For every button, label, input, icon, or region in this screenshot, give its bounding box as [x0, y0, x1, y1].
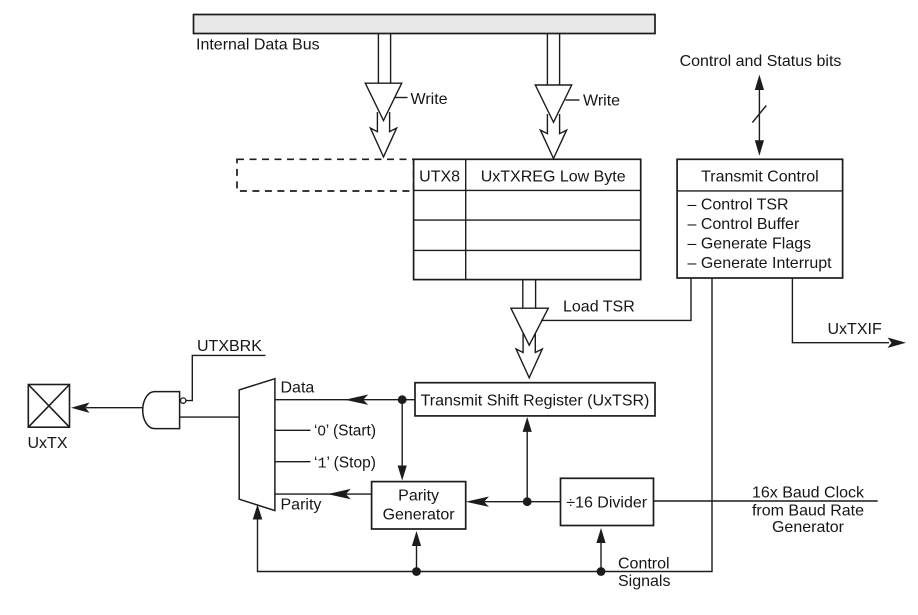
bus width slash	[752, 106, 766, 123]
wire: data from TSR to mux	[275, 399, 415, 401]
svg-text:Control and Status bits: Control and Status bits	[680, 53, 842, 70]
wire: gate to pad	[86, 407, 143, 409]
arrowhead into parity generator right edge	[466, 497, 489, 507]
svg-text:Data: Data	[281, 380, 315, 397]
arrowhead: UxTXIF	[888, 338, 907, 348]
junction on data wire	[398, 395, 407, 404]
arrowhead into pad	[71, 403, 90, 413]
transmit shift register box	[415, 383, 655, 416]
svg-text:Control: Control	[618, 556, 670, 573]
wire: UxTXIF	[792, 278, 889, 343]
svg-text:UxTXIF: UxTXIF	[828, 321, 882, 338]
internal data bus	[194, 15, 656, 34]
svg-text:Transmit Control: Transmit Control	[701, 169, 819, 186]
svg-text:‘0’ (Start): ‘0’ (Start)	[314, 422, 376, 439]
load TSR chevron head	[516, 333, 542, 378]
svg-text:– Generate Interrupt: – Generate Interrupt	[688, 255, 833, 272]
arrowhead on data wire	[345, 395, 368, 405]
wire: junction up to TSR	[526, 430, 528, 502]
svg-text:from Baud Rate: from Baud Rate	[752, 503, 864, 520]
arrowhead into TSR bottom	[523, 417, 532, 432]
wire: parity from parity generator to mux	[275, 493, 372, 495]
junction below parity generator	[412, 567, 421, 576]
junction below divider	[597, 567, 606, 576]
label line: Write (right)	[566, 99, 580, 101]
svg-text:Generator: Generator	[772, 519, 845, 536]
write arrow 2 hollow triangle	[535, 85, 571, 122]
svg-text:16x Baud Clock: 16x Baud Clock	[752, 485, 865, 502]
wire: data junction down to parity generator	[401, 400, 403, 467]
UxTXREG register box	[414, 159, 641, 279]
junction on divider-parity wire	[523, 497, 532, 506]
write arrow 2 chevron head	[540, 114, 566, 159]
svg-text:UTX8: UTX8	[419, 169, 460, 186]
wire: 16x baud clock	[654, 500, 878, 502]
wire: divider to parity generator	[484, 501, 561, 503]
svg-text:UxTX: UxTX	[28, 435, 68, 452]
arrowhead on parity wire	[328, 489, 351, 499]
write arrow 1 (left, shaft)	[378, 34, 390, 84]
mux trapezoid	[239, 379, 275, 511]
wire: up into divider bottom	[600, 541, 602, 572]
wire: up into parity generator bottom	[416, 544, 418, 572]
output gate (D-shape pointing left)	[143, 392, 180, 429]
svg-text:UTXBRK: UTXBRK	[197, 338, 262, 355]
svg-text:– Control TSR: – Control TSR	[688, 197, 789, 214]
divider box	[561, 478, 654, 525]
wire: mux output to gate	[180, 416, 240, 418]
svg-text:Parity: Parity	[281, 497, 322, 514]
svg-text:Signals: Signals	[618, 573, 670, 590]
load TSR arrow (shaft)	[523, 280, 536, 309]
wire: load TSR control from transmit control	[541, 278, 691, 320]
wire: control signals long vertical + bottom run	[258, 278, 713, 572]
arrowhead into mux bottom	[253, 505, 263, 520]
write arrow 1 hollow triangle	[365, 83, 401, 120]
stub: '1' (Stop)	[275, 461, 311, 463]
arrowhead into parity generator top	[398, 466, 407, 481]
dashed buffer extension box	[237, 159, 414, 191]
svg-text:Write: Write	[583, 93, 620, 110]
transmit control box	[677, 159, 843, 278]
transmit control header divider	[677, 190, 843, 192]
stub: '0' (Start)	[275, 429, 311, 431]
label line: Write (left)	[395, 97, 408, 99]
wire: UTXBRK underline + drop to bubble	[186, 355, 266, 400]
svg-text:Load TSR: Load TSR	[563, 299, 635, 316]
svg-text:Internal Data Bus: Internal Data Bus	[196, 37, 320, 54]
svg-text:Write: Write	[411, 91, 448, 108]
svg-text:Generator: Generator	[383, 507, 456, 524]
load TSR hollow triangle	[511, 308, 548, 345]
svg-text:UxTXREG Low Byte: UxTXREG Low Byte	[481, 169, 626, 186]
svg-text:– Generate Flags: – Generate Flags	[688, 236, 812, 253]
UxTX pad	[28, 385, 69, 428]
bidirectional control/status arrow	[755, 75, 764, 156]
inverter bubble on gate input	[181, 398, 186, 403]
svg-text:– Control Buffer: – Control Buffer	[688, 216, 800, 233]
parity generator box	[372, 482, 466, 529]
svg-text:Transmit Shift Register (UxTSR: Transmit Shift Register (UxTSR)	[421, 393, 650, 410]
svg-text:÷16 Divider: ÷16 Divider	[566, 495, 647, 512]
svg-text:‘1’ (Stop): ‘1’ (Stop)	[314, 454, 376, 472]
svg-text:Parity: Parity	[398, 488, 439, 505]
arrowhead into parity generator bottom	[412, 531, 421, 546]
write arrow 2 (right, shaft)	[547, 34, 559, 86]
write arrow 1 chevron head	[370, 112, 396, 157]
arrowhead into divider bottom	[596, 528, 605, 543]
